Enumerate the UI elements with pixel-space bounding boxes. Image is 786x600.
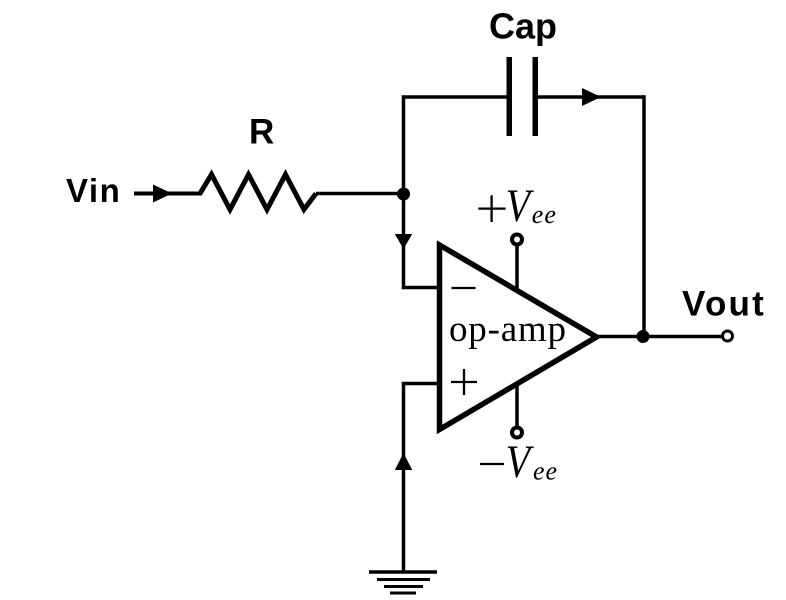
wire: Vin input lead (134, 192, 202, 196)
capacitor Cap right plate (533, 57, 539, 136)
wire: right side down to output (642, 95, 646, 336)
svg-text:R: R (249, 113, 274, 152)
label +Vee: plus sign (478, 207, 505, 209)
arrow on Vin input lead (pointing right) (153, 185, 172, 203)
svg-text:Cap: Cap (489, 6, 557, 47)
junction dot at output (637, 330, 650, 343)
wire: ground up to non-inverting input (404, 384, 438, 573)
arrow on inverting input wire (pointing down) (395, 234, 412, 249)
wire: -Vee stem (515, 384, 519, 428)
output open terminal circle (723, 331, 733, 341)
resistor R (200, 175, 316, 210)
wire: capacitor to right corner (538, 95, 644, 99)
wire: op-amp output (598, 335, 723, 339)
arrow on feedback wire (pointing right) (582, 88, 601, 106)
wire: +Vee stem (515, 245, 519, 290)
capacitor Cap left plate (507, 57, 513, 136)
wire: resistor to node (316, 192, 404, 196)
svg-text:ee: ee (532, 200, 557, 229)
svg-text:Vout: Vout (682, 285, 766, 324)
plus sign at non-inverting input (451, 381, 477, 383)
label -Vee: minus sign (480, 463, 504, 465)
minus sign at inverting input (452, 287, 476, 289)
svg-text:V: V (506, 436, 534, 488)
svg-text:V: V (506, 180, 534, 232)
ground symbol (369, 570, 437, 574)
op-amp U1 triangle (440, 245, 597, 430)
+Vee supply terminal circle (512, 235, 522, 245)
svg-text:ee: ee (533, 457, 558, 486)
wire: node up to feedback branch (404, 97, 508, 194)
arrow on non-inverting input wire (pointing up) (395, 453, 412, 470)
svg-text:Vin: Vin (66, 172, 121, 209)
-Vee supply terminal circle (512, 428, 522, 438)
wire: node down to inverting input (404, 194, 438, 288)
node junction dot (inverting summing node) (397, 188, 410, 201)
svg-text:op-amp: op-amp (449, 309, 566, 350)
